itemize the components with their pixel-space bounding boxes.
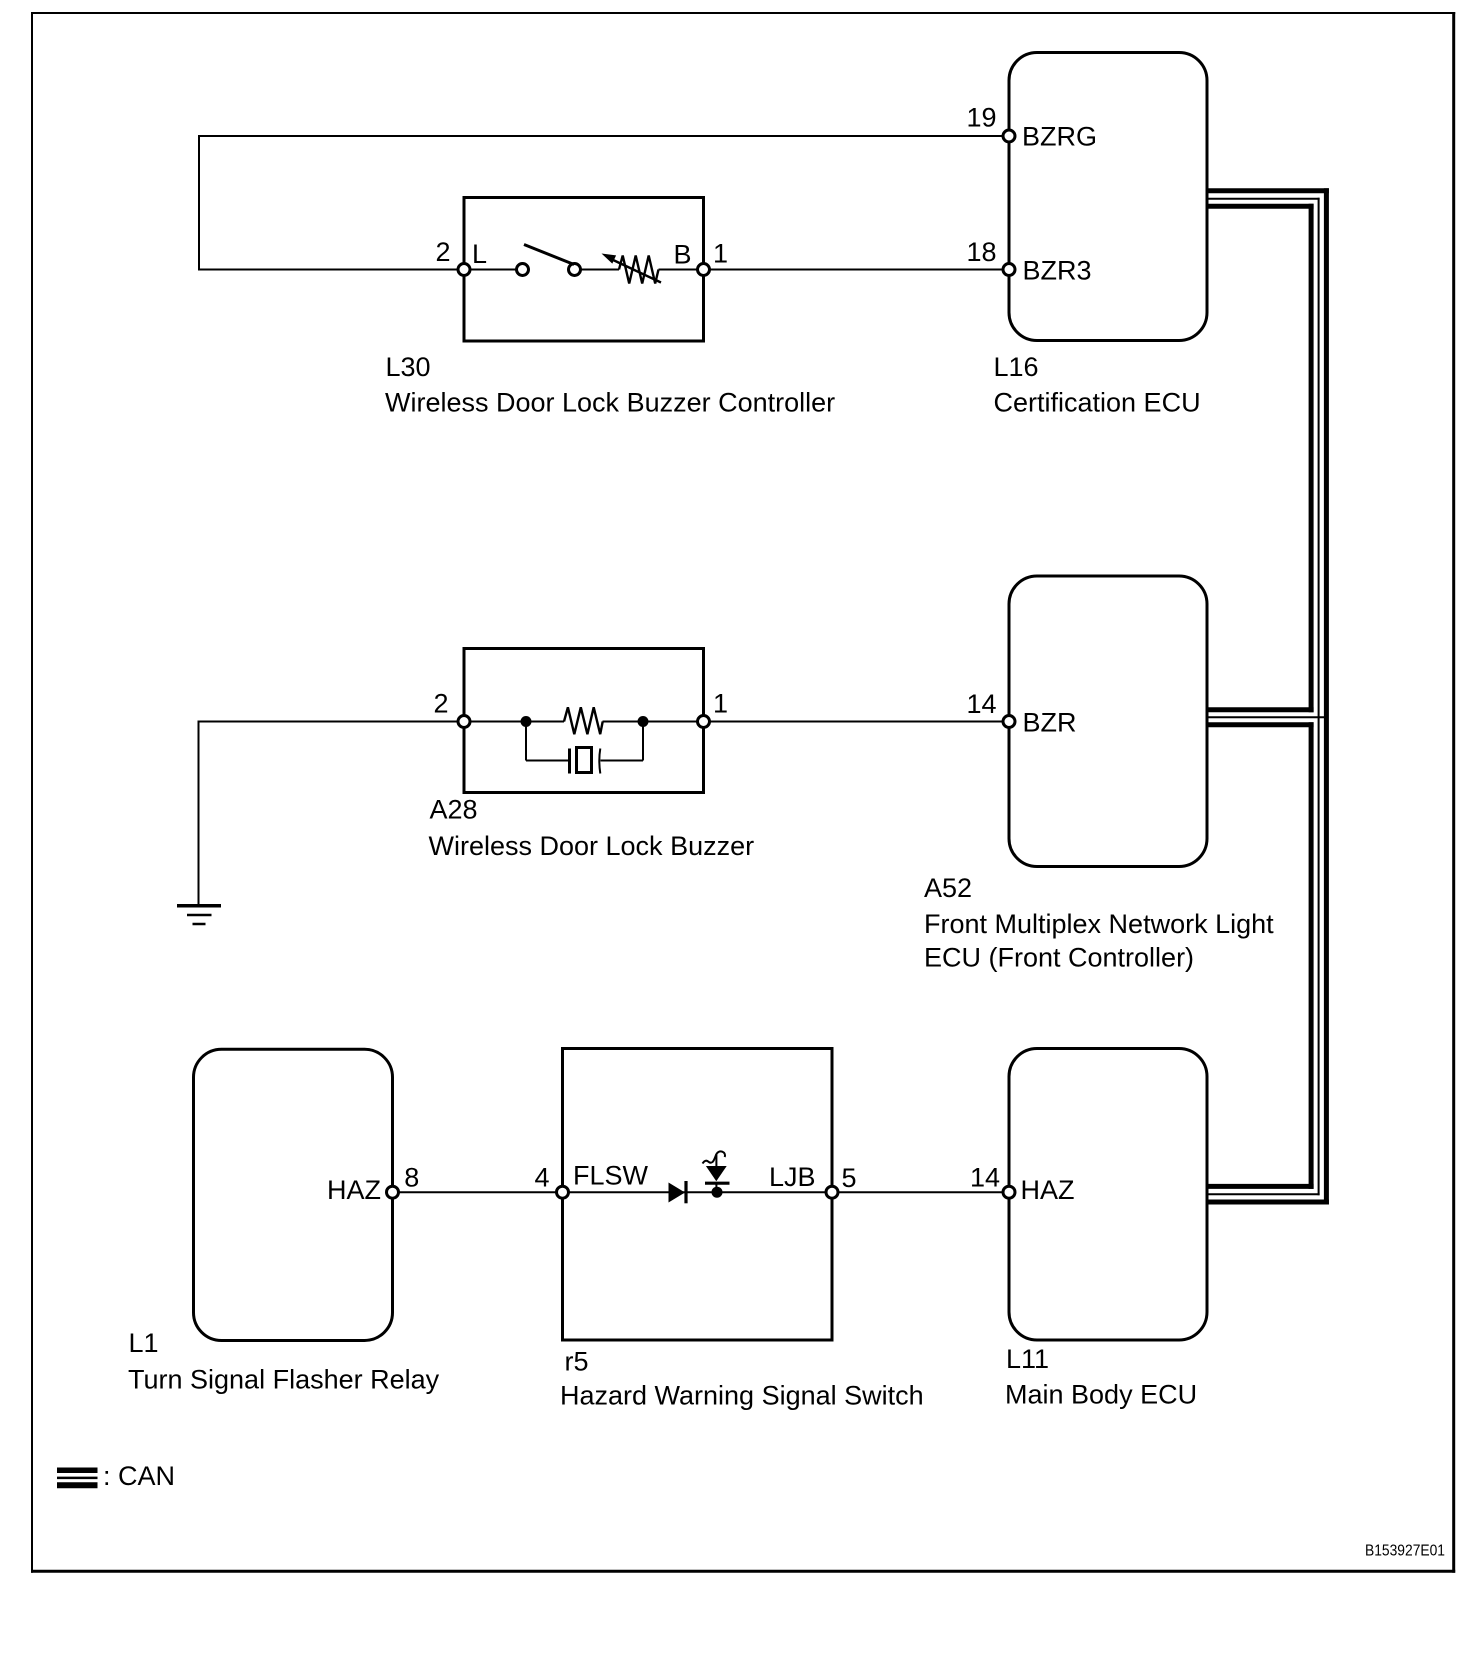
- svg-text:14: 14: [970, 1163, 1000, 1193]
- svg-text:L11: L11: [1006, 1344, 1049, 1374]
- wire r5 pin 5 to L11 pin 14: [832, 1191, 1009, 1193]
- svg-text:18: 18: [966, 237, 996, 267]
- pin 19 (L16 BZRG): [1003, 130, 1015, 142]
- variable resistor (buzzer volume) in L30: [619, 256, 659, 284]
- svg-text:L: L: [472, 239, 487, 269]
- wire L30 interior (pin2 to switch, switch to resistor, resistor to pin1): [464, 269, 704, 271]
- svg-text:HAZ: HAZ: [327, 1175, 381, 1205]
- wire L30 pin 2 to L16 pin 19 (BZRG loop): [199, 136, 1009, 270]
- pin 1 (L30 B): [698, 264, 710, 276]
- junction dot (A28 right): [638, 716, 649, 727]
- svg-text:1: 1: [713, 239, 728, 269]
- svg-text:L30: L30: [386, 352, 431, 382]
- pin 1 (A28): [698, 716, 710, 728]
- svg-text:Main Body ECU: Main Body ECU: [1005, 1379, 1197, 1409]
- CAN bus stub from A52: [1206, 710, 1324, 725]
- pin 2 (A28): [458, 716, 470, 728]
- svg-text:BZR3: BZR3: [1023, 256, 1092, 286]
- svg-text:A52: A52: [924, 873, 972, 903]
- LED indicator in r5: [703, 1151, 730, 1192]
- switch arm: [524, 245, 574, 265]
- svg-text:L1: L1: [129, 1328, 159, 1358]
- piezo buzzer element in A28: [526, 722, 643, 774]
- svg-text:LJB: LJB: [769, 1162, 816, 1192]
- svg-text:5: 5: [842, 1163, 857, 1193]
- CAN bus vertical run: [1311, 188, 1326, 1204]
- pin 2 (L30 L): [458, 264, 470, 276]
- CAN bus stub to L11: [1206, 1186, 1329, 1202]
- wire A28 interior: [464, 721, 704, 723]
- wire A28 pin 1 to A52 pin 14: [704, 721, 1010, 723]
- svg-text:HAZ: HAZ: [1021, 1175, 1075, 1205]
- svg-text:2: 2: [435, 237, 450, 267]
- svg-text:Certification ECU: Certification ECU: [994, 388, 1201, 418]
- pin 14 (L11 HAZ): [1003, 1186, 1015, 1198]
- svg-text:4: 4: [534, 1163, 549, 1193]
- svg-text:19: 19: [966, 102, 996, 132]
- svg-text:B153927E01: B153927E01: [1365, 1542, 1445, 1559]
- switch box r5: [563, 1049, 833, 1341]
- diode in r5: [669, 1181, 687, 1203]
- pin 18 (L16 BZR3): [1003, 264, 1015, 276]
- junction dot (A28 left): [521, 716, 532, 727]
- svg-text:14: 14: [966, 689, 996, 719]
- ECU box L16 Certification ECU: [1009, 53, 1207, 341]
- resistor in A28: [564, 707, 603, 734]
- svg-text:L16: L16: [994, 352, 1039, 382]
- svg-text:ECU (Front Controller): ECU (Front Controller): [924, 943, 1194, 973]
- ECU box L11 Main Body ECU: [1009, 1049, 1207, 1341]
- connector box L30: [464, 198, 704, 342]
- relay box L1 Turn Signal Flasher Relay: [194, 1049, 393, 1340]
- switch contact circle (L side): [517, 264, 529, 276]
- svg-text:8: 8: [404, 1163, 419, 1193]
- svg-text:Front Multiplex Network Light: Front Multiplex Network Light: [924, 909, 1274, 939]
- svg-text:FLSW: FLSW: [573, 1161, 649, 1191]
- svg-text:Wireless Door Lock Buzzer: Wireless Door Lock Buzzer: [429, 831, 755, 861]
- svg-text:B: B: [674, 240, 692, 270]
- ground: [177, 906, 221, 924]
- junction dot (LED to wire): [712, 1187, 723, 1198]
- ECU box A52 Front Multiplex Network Light ECU: [1009, 576, 1207, 867]
- switch contact circle (B side): [569, 264, 581, 276]
- svg-text:1: 1: [713, 689, 728, 719]
- pin 5 (r5 LJB): [826, 1186, 838, 1198]
- svg-text:BZRG: BZRG: [1022, 121, 1097, 151]
- wire L1 pin 8 to r5 pin 4: [393, 1191, 563, 1193]
- svg-text:Turn Signal Flasher Relay: Turn Signal Flasher Relay: [128, 1365, 440, 1395]
- connector box A28: [464, 649, 704, 793]
- svg-text:Wireless Door Lock Buzzer Cont: Wireless Door Lock Buzzer Controller: [385, 388, 835, 418]
- svg-text:Hazard Warning Signal Switch: Hazard Warning Signal Switch: [560, 1380, 924, 1410]
- CAN legend symbol: [57, 1470, 98, 1485]
- svg-text:BZR: BZR: [1023, 707, 1077, 737]
- svg-text:2: 2: [433, 689, 448, 719]
- pin 8 (L1 HAZ): [387, 1186, 399, 1198]
- svg-text:A28: A28: [430, 795, 478, 825]
- wire r5 interior: [563, 1191, 833, 1193]
- pin 14 (A52 BZR): [1003, 716, 1015, 728]
- svg-text:r5: r5: [565, 1346, 589, 1376]
- svg-text:: CAN: : CAN: [103, 1461, 175, 1491]
- wire A28 pin 2 to ground: [199, 722, 465, 906]
- arrow across variable resistor: [602, 254, 662, 283]
- pin 4 (r5 FLSW): [557, 1186, 569, 1198]
- CAN bus stub from L16: [1206, 191, 1329, 207]
- wire L30 pin 1 to L16 pin 18: [704, 269, 1010, 271]
